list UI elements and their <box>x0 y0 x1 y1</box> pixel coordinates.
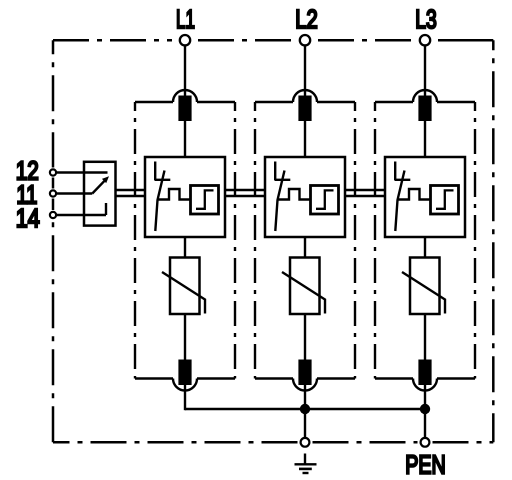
trigger pulse wire (module 3) <box>398 189 431 200</box>
spark-gap unit box (module 2) <box>265 157 345 237</box>
module 2 top bushing arc <box>293 90 317 102</box>
trigger electronics box (module 1) <box>191 186 219 215</box>
wire spark-gap box to varistor (module 1) <box>184 237 186 258</box>
outer enclosure dash-dot border (left edge) <box>52 40 55 442</box>
module 3 dashed enclosure top edge <box>375 101 413 103</box>
switch contact stub (module 2) <box>274 162 276 181</box>
contact 12 wire <box>57 171 108 173</box>
switch contact tick (module 2) <box>275 179 291 181</box>
contact 14 wire <box>57 203 106 215</box>
step symbol (module 2) <box>316 190 334 208</box>
wire module 3 to earth bus <box>424 385 426 411</box>
thermal disconnector (bottom, module 2) <box>298 360 311 386</box>
module 2 dashed enclosure top edge <box>255 101 293 103</box>
module 1 dashed enclosure bottom edge <box>135 377 173 379</box>
module 1 top bushing arc <box>173 90 197 102</box>
module 1 (L1) dashed enclosure left edge <box>134 102 136 379</box>
terminal 12 <box>50 169 56 175</box>
thermal disconnector (bottom, module 1) <box>178 360 191 386</box>
thermal disconnector (top, module 1) <box>178 96 191 122</box>
outer enclosure dash-dot border (right edge) <box>492 40 495 442</box>
module 3 bottom bushing arc <box>413 379 437 391</box>
thermal disconnector (top, module 3) <box>418 96 431 122</box>
wire L3 terminal to disconnector <box>424 46 426 98</box>
module 3 (L3) dashed enclosure left edge <box>374 102 376 379</box>
varistor (module 3) <box>410 258 440 315</box>
earth bus wire <box>185 408 425 410</box>
wire L2 terminal to disconnector <box>304 46 306 98</box>
wire spark-gap box to varistor (module 2) <box>304 237 306 258</box>
trigger pulse wire (module 1) <box>158 189 191 200</box>
switch contact stub (module 1) <box>154 162 156 181</box>
outer enclosure dash-dot border (top edge) <box>53 39 493 42</box>
bus double line: contact box to module 1 <box>117 190 146 196</box>
bus double line: module 1 to module 2 <box>225 190 265 196</box>
ground terminal <box>301 438 310 447</box>
terminal 11 <box>50 190 56 196</box>
ground symbol <box>304 454 306 464</box>
changeover switch blade with arrow <box>92 180 105 194</box>
module 2 dashed enclosure right edge <box>354 102 356 379</box>
svg-text:14: 14 <box>16 203 40 233</box>
wire earth bus to ground terminal <box>304 409 306 437</box>
spark-gap unit box (module 3) <box>385 157 465 237</box>
bus double line: module 2 to module 3 <box>345 190 385 196</box>
terminal L1 <box>180 35 190 45</box>
switch blade (module 3) <box>395 171 404 232</box>
wire disconnector to spark-gap box (module 2) <box>304 121 306 158</box>
step symbol (module 1) <box>196 190 214 208</box>
svg-text:L2: L2 <box>295 4 318 34</box>
wire spark-gap box to varistor (module 3) <box>424 237 426 258</box>
module 1 dashed enclosure right edge <box>234 102 236 379</box>
terminal L3 <box>420 35 430 45</box>
thermal disconnector (bottom, module 3) <box>418 360 431 386</box>
wire L1 terminal to disconnector <box>184 46 186 98</box>
switch blade (module 1) <box>155 171 164 232</box>
wire varistor to bottom disconnector (module 3) <box>424 314 426 360</box>
junction node at module 2 / earth bus <box>300 404 310 414</box>
svg-text:L1: L1 <box>176 4 195 34</box>
module 1 bottom bushing arc <box>173 379 197 391</box>
junction node at module 3 / earth bus <box>420 404 430 414</box>
switch blade (module 2) <box>275 171 284 232</box>
step symbol (module 3) <box>436 190 454 208</box>
terminal 14 <box>50 212 56 218</box>
module 1 dashed enclosure top edge <box>135 101 173 103</box>
spark-gap unit box (module 1) <box>145 157 225 237</box>
wire module 1 to earth bus <box>184 385 186 411</box>
trigger electronics box (module 3) <box>431 186 459 215</box>
module 3 dashed enclosure right edge <box>474 102 476 379</box>
wire disconnector to spark-gap box (module 3) <box>424 121 426 158</box>
switch contact stub (module 3) <box>394 162 396 181</box>
module 2 dashed enclosure bottom edge <box>255 377 293 379</box>
wire earth bus to PEN terminal <box>424 409 426 437</box>
trigger electronics box (module 2) <box>311 186 339 215</box>
varistor (module 2) <box>290 258 320 315</box>
module 3 top bushing arc <box>413 90 437 102</box>
wire varistor to bottom disconnector (module 1) <box>184 314 186 360</box>
wire varistor to bottom disconnector (module 2) <box>304 314 306 360</box>
outer enclosure dash-dot border (bottom edge) <box>53 441 493 444</box>
wire disconnector to spark-gap box (module 1) <box>184 121 186 158</box>
contact 11 wire <box>57 192 92 194</box>
PEN terminal <box>421 438 430 447</box>
switch contact tick (module 3) <box>395 179 411 181</box>
module 2 bottom bushing arc <box>293 379 317 391</box>
trigger pulse wire (module 2) <box>278 189 311 200</box>
terminal L2 <box>300 35 310 45</box>
varistor (module 1) <box>170 258 200 315</box>
switch contact tick (module 1) <box>155 179 171 181</box>
svg-text:L3: L3 <box>415 4 437 34</box>
svg-text:PEN: PEN <box>405 450 446 480</box>
module 2 (L2) dashed enclosure left edge <box>254 102 256 379</box>
wire module 2 to earth bus <box>304 385 306 411</box>
thermal disconnector (top, module 2) <box>298 96 311 122</box>
module 3 dashed enclosure bottom edge <box>375 377 413 379</box>
remote signalling contact box <box>84 162 116 226</box>
